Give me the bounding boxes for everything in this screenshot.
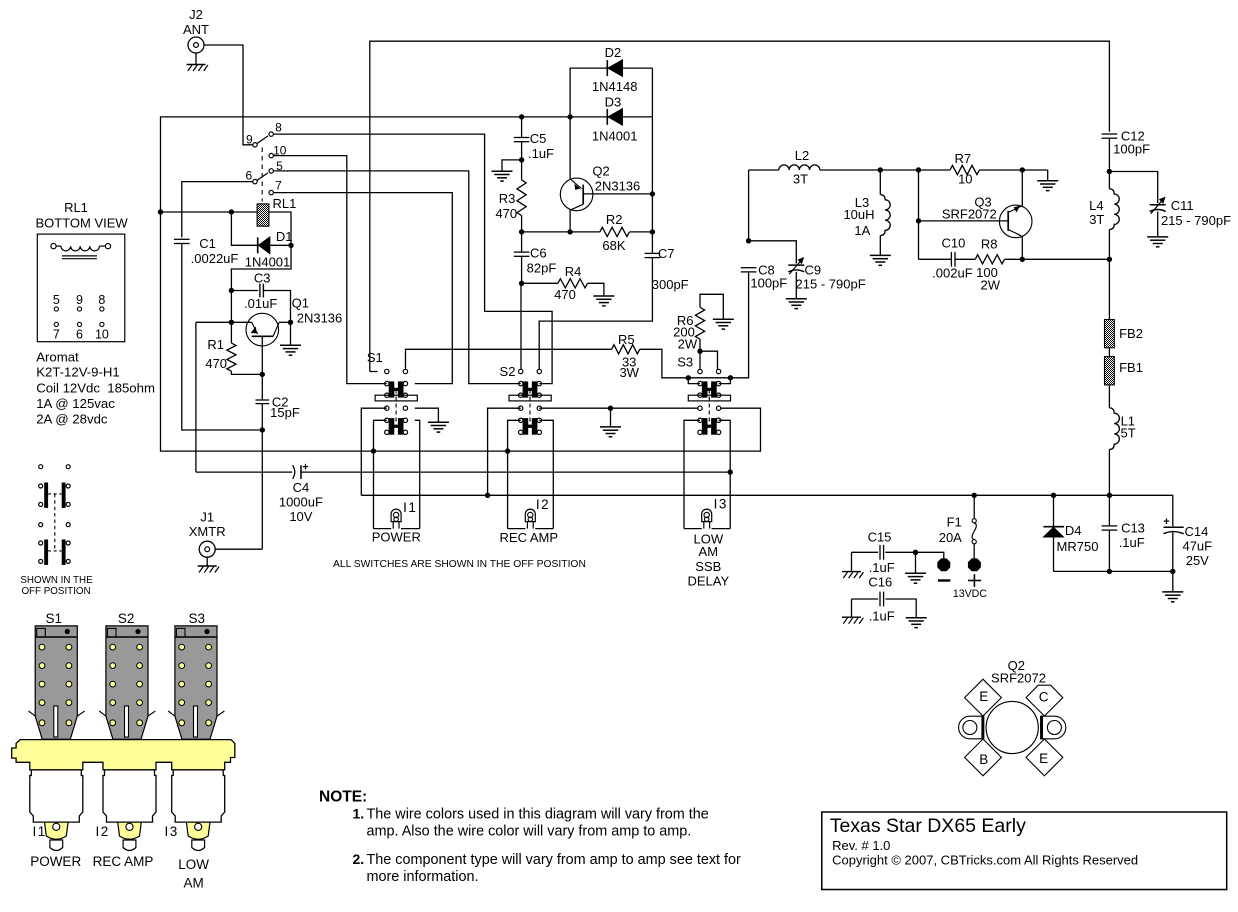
svg-text:25V: 25V: [1186, 553, 1209, 568]
connector J1 XMTR: [199, 541, 215, 557]
svg-text:amp. Also the wire color will: amp. Also the wire color will vary from …: [367, 824, 692, 840]
diode D1 1N4001: [231, 212, 257, 245]
resistor R8 100 2W: [955, 258, 975, 260]
inductor L4 3T: [1108, 172, 1110, 189]
svg-text:R3: R3: [499, 191, 516, 206]
capacitor C4 1000uF 10V (electrolytic): [196, 471, 292, 473]
ground at C5/R3 node: [502, 160, 522, 171]
svg-text:3W: 3W: [619, 365, 639, 380]
svg-text:13VDC: 13VDC: [953, 588, 987, 600]
node Q3 bus: [916, 167, 921, 172]
switch S3 (schematic): [698, 369, 702, 373]
connector J2 ANT: [188, 37, 204, 53]
svg-text:RL1: RL1: [64, 200, 88, 215]
svg-text:D4: D4: [1065, 523, 1082, 538]
resistor R6 200 2W: [700, 294, 723, 319]
capacitor C15 .1uF: [885, 551, 915, 553]
svg-text:.0022uF: .0022uF: [191, 251, 239, 266]
svg-text:5: 5: [53, 293, 60, 307]
relay RL1 bottom view box: [37, 234, 125, 342]
transistor Q2 2N3136: [569, 117, 571, 179]
svg-text:10V: 10V: [289, 509, 312, 524]
svg-text:R1: R1: [207, 337, 224, 352]
svg-text:Rev. # 1.0: Rev. # 1.0: [832, 838, 890, 853]
lead B bottom-left: [965, 739, 1002, 776]
svg-text:S1: S1: [367, 350, 383, 365]
fuse F1 20A: [972, 493, 977, 498]
wire S1 E-right (lamp I1 box right): [415, 420, 420, 528]
svg-text:POWER: POWER: [30, 854, 81, 869]
svg-text:I3: I3: [164, 824, 178, 839]
svg-text:C3: C3: [254, 270, 271, 285]
diode D3 1N4001: [522, 116, 608, 118]
svg-text:C4: C4: [293, 480, 310, 495]
node on left bus at coil line: [158, 209, 163, 214]
wire S1 B-left to pin 10: [273, 156, 386, 384]
svg-text:2W: 2W: [981, 278, 1001, 293]
capacitor C8 100pF: [746, 238, 751, 243]
svg-text:20A: 20A: [939, 530, 962, 545]
ground at J2 (chassis): [195, 53, 197, 64]
svg-text:R4: R4: [565, 264, 582, 279]
inductor L1 5T: [1108, 385, 1110, 408]
wire Q1 base to C4: [195, 322, 197, 472]
svg-text:9: 9: [246, 132, 253, 146]
svg-text:.1uF: .1uF: [869, 608, 895, 623]
svg-text:7: 7: [275, 179, 282, 193]
relay RL1 contact pins 8 9 10 5 6 7: [253, 143, 257, 147]
svg-text:C7: C7: [658, 246, 675, 261]
node C5 on top line: [519, 114, 524, 119]
inductor L2 3T: [748, 170, 750, 241]
svg-text:C11: C11: [1171, 198, 1194, 213]
chassis ground at C16 left: [851, 599, 853, 617]
svg-text:REC AMP: REC AMP: [93, 854, 154, 869]
wire S1 B-right to pin 7: [273, 193, 452, 384]
mounting frame (yellow bar): [12, 740, 235, 770]
wire J2 to relay pin 9: [204, 45, 253, 145]
svg-text:1.: 1.: [353, 805, 365, 821]
svg-text:.01uF: .01uF: [244, 296, 277, 311]
svg-text:R7: R7: [954, 151, 971, 166]
svg-text:L4: L4: [1089, 198, 1103, 213]
svg-text:S2: S2: [500, 364, 516, 379]
relay coil symbol in bottom view: [51, 244, 56, 249]
capacitor C1 .0022uF: [182, 182, 253, 238]
svg-text:SRF2072: SRF2072: [991, 671, 1046, 686]
ground at C9: [786, 298, 807, 300]
svg-text:S1: S1: [46, 611, 63, 626]
svg-text:Copyright © 2007, CBTricks.com: Copyright © 2007, CBTricks.com All Right…: [832, 852, 1138, 867]
svg-text:Q2: Q2: [592, 164, 609, 179]
svg-text:Aromat: Aromat: [36, 349, 79, 364]
svg-text:more information.: more information.: [367, 869, 479, 885]
svg-text:470: 470: [205, 356, 227, 371]
svg-text:+: +: [302, 461, 308, 473]
wire D1 return loop: [231, 245, 291, 290]
svg-text:2W: 2W: [678, 336, 698, 351]
wire S2 D-right to S3 D-left with ground: [539, 407, 700, 409]
svg-text:1A @ 125vac: 1A @ 125vac: [36, 396, 115, 411]
lamp holder I3: [172, 770, 225, 822]
svg-text:.002uF: .002uF: [932, 266, 973, 281]
ground at R7: [1047, 170, 1049, 181]
wire S1 A-right to R5 line: [406, 349, 612, 369]
svg-text:.1uF: .1uF: [1119, 535, 1145, 550]
svg-text:B: B: [979, 752, 988, 767]
svg-text:100pF: 100pF: [1113, 141, 1150, 156]
svg-text:I2: I2: [536, 497, 550, 512]
ground at Q1 collector: [290, 322, 292, 345]
svg-text:8: 8: [275, 121, 282, 135]
svg-text:D3: D3: [605, 95, 622, 110]
svg-text:300pF: 300pF: [652, 277, 689, 292]
svg-text:C5: C5: [530, 131, 547, 146]
wire S3 E-right (lamp I3 box right): [719, 420, 731, 528]
ferrite bead FB1: [1108, 348, 1110, 357]
svg-text:215 - 790pF: 215 - 790pF: [796, 277, 866, 292]
svg-text:215 - 790pF: 215 - 790pF: [1161, 213, 1231, 228]
svg-text:SHOWN IN THE: SHOWN IN THE: [20, 575, 93, 586]
svg-text:82pF: 82pF: [527, 261, 557, 276]
svg-text:C9: C9: [804, 263, 821, 278]
relay RL1 coil: [257, 204, 269, 226]
wire S1 D-left down to supply rail wire: [361, 408, 387, 495]
svg-text:Q1: Q1: [292, 296, 309, 311]
svg-text:8: 8: [98, 293, 105, 307]
title box: [822, 812, 1227, 890]
svg-text:R5: R5: [618, 332, 635, 347]
capacitor C6 82pF: [521, 232, 523, 252]
lamp holder I1: [30, 770, 83, 822]
svg-text:F1: F1: [947, 514, 962, 529]
svg-text:15pF: 15pF: [270, 405, 300, 420]
svg-text:ANT: ANT: [183, 22, 209, 37]
svg-text:3T: 3T: [1089, 212, 1104, 227]
wire S2 B-right to pin 8: [273, 134, 552, 384]
svg-text:6: 6: [245, 169, 252, 183]
mounting tab left: [959, 716, 984, 739]
svg-text:47uF: 47uF: [1182, 538, 1212, 553]
wire S2 E-right (lamp I2 box right): [539, 420, 553, 528]
svg-text:.1uF: .1uF: [869, 560, 895, 575]
svg-text:2N3136: 2N3136: [297, 311, 343, 326]
terminal -: [938, 559, 950, 571]
switch S1 (schematic): [385, 369, 389, 373]
svg-text:E: E: [1039, 751, 1048, 766]
svg-text:J2: J2: [189, 7, 203, 22]
wire top bus with right rail: [370, 41, 1110, 371]
ground at C15 node: [915, 552, 917, 573]
resistor R7 10: [950, 165, 979, 174]
svg-text:I1: I1: [32, 824, 46, 839]
switch S2 (schematic): [519, 369, 523, 373]
capacitor C12 100pF: [1102, 133, 1118, 135]
switch S1 body: [35, 626, 77, 739]
relay contacts shown off position diagram: [39, 465, 43, 469]
svg-text:C1: C1: [199, 236, 216, 251]
svg-text:C10: C10: [941, 235, 965, 250]
lamp I3 LOW AM SSB DELAY: [684, 528, 702, 530]
capacitor C7 300pF: [645, 252, 661, 254]
svg-text:.1uF: .1uF: [528, 146, 554, 161]
svg-text:R2: R2: [606, 212, 623, 227]
mounting tab right: [1041, 716, 1066, 739]
svg-text:I3: I3: [714, 496, 728, 511]
svg-text:K2T-12V-9-H1: K2T-12V-9-H1: [36, 364, 120, 379]
svg-text:68K: 68K: [602, 238, 625, 253]
wire S3 E-left (lamp I3 box left): [684, 420, 700, 528]
wire S1 D-right to ground: [415, 408, 439, 422]
lamp holder I2: [103, 770, 156, 822]
svg-text:C16: C16: [868, 575, 892, 590]
wire S2 B-left to pin 5: [273, 171, 520, 384]
capacitor C2 15pF: [261, 374, 263, 400]
terminal + 13VDC: [969, 559, 981, 571]
svg-text:OFF POSITION: OFF POSITION: [21, 586, 90, 597]
svg-text:470: 470: [495, 206, 517, 221]
transistor Q1 2N3136: [196, 321, 252, 323]
svg-text:R8: R8: [981, 236, 998, 251]
capacitor C5 .1uF: [521, 117, 523, 137]
svg-text:POWER: POWER: [372, 530, 421, 545]
svg-text:6: 6: [76, 328, 83, 342]
ground at J1 (chassis): [206, 557, 208, 565]
lead E bottom-right: [1026, 739, 1063, 776]
capacitor C13 .1uF: [1108, 495, 1110, 526]
capacitor C14 47uF 25V (electrolytic): [1164, 526, 1184, 528]
variable capacitor C9 215-790pF: [749, 241, 797, 264]
svg-text:FB1: FB1: [1119, 360, 1143, 375]
capacitor C16 .1uF: [852, 598, 879, 600]
svg-text:Coil 12Vdc 185ohm: Coil 12Vdc 185ohm: [36, 380, 155, 395]
chassis ground at C15 left: [851, 552, 853, 571]
svg-text:10uH: 10uH: [843, 207, 874, 222]
wire S2 E-left (lamp I2 box left): [508, 420, 521, 528]
wire C2 node to J1: [261, 430, 263, 549]
ground at C16 right: [906, 617, 927, 619]
ground at S1 D-right: [428, 421, 449, 423]
svg-text:J1: J1: [200, 510, 214, 525]
lead E top-left: [965, 679, 1002, 716]
svg-text:2A @ 28vdc: 2A @ 28vdc: [36, 411, 108, 426]
wire left bus / top line / bottom long wire: [161, 117, 761, 451]
switch S3 body: [175, 626, 217, 739]
svg-text:SRF2072: SRF2072: [942, 207, 997, 222]
resistor R5 33 3W: [612, 345, 640, 354]
svg-text:REC AMP: REC AMP: [500, 530, 559, 545]
wire S1 E-left (lamp I1 box left): [374, 420, 387, 528]
svg-text:MR750: MR750: [1057, 539, 1099, 554]
svg-text:XMTR: XMTR: [189, 524, 226, 539]
ground at C14: [1172, 571, 1174, 592]
inductor L3 10uH 1A: [878, 167, 883, 172]
resistor R4 470: [522, 282, 558, 284]
ground at L3: [870, 254, 891, 256]
wire C7 to S2 pole: [539, 258, 652, 370]
svg-text:1N4001: 1N4001: [245, 254, 291, 269]
svg-text:The component type will vary f: The component type will vary from amp to…: [367, 852, 742, 868]
package body circle: [986, 701, 1038, 753]
svg-text:I1: I1: [403, 500, 417, 515]
svg-text:I2: I2: [95, 824, 109, 839]
svg-text:1N4001: 1N4001: [592, 128, 638, 143]
svg-text:E: E: [979, 689, 988, 704]
wire S2 D-left to supply rail: [488, 408, 521, 495]
resistor R2 68K: [522, 231, 600, 233]
switch S2 body: [106, 626, 148, 739]
svg-text:S3: S3: [189, 611, 206, 626]
resistor R1 470: [227, 343, 236, 371]
svg-text:SSB: SSB: [695, 559, 721, 574]
svg-text:3T: 3T: [793, 172, 808, 187]
svg-text:10: 10: [958, 172, 972, 187]
svg-text:AM: AM: [183, 876, 203, 891]
variable capacitor C11 215-790pF: [1109, 172, 1157, 204]
diode D2 1N4148: [567, 114, 572, 119]
ground at R6: [713, 318, 734, 320]
svg-text:100pF: 100pF: [750, 276, 787, 291]
svg-text:D1: D1: [276, 229, 293, 244]
lead C top-right (beveled): [1026, 685, 1063, 716]
capacitor C3 .01uF: [229, 288, 234, 293]
svg-text:C14: C14: [1184, 524, 1208, 539]
svg-text:C6: C6: [530, 246, 547, 261]
svg-text:AM: AM: [699, 544, 719, 559]
wire lamp supply rail y=495: [361, 495, 1173, 526]
svg-text:ALL SWITCHES ARE SHOWN IN THE: ALL SWITCHES ARE SHOWN IN THE OFF POSITI…: [333, 559, 586, 570]
svg-text:2N3136: 2N3136: [595, 179, 641, 194]
wire S3 B-left: [688, 378, 700, 384]
wire S1 A-left to bus: [370, 371, 378, 373]
wire coil row y=212: [161, 211, 258, 213]
ground at C11: [1147, 236, 1168, 238]
svg-text:The wire colors used in this d: The wire colors used in this diagram wil…: [367, 807, 709, 823]
svg-text:S3: S3: [677, 355, 693, 370]
ground at R4: [593, 295, 614, 297]
ferrite bead FB2: [1108, 259, 1110, 319]
svg-text:+: +: [1163, 516, 1169, 528]
transistor Q3 SRF2072: [919, 220, 1009, 222]
wire bottom return: [1054, 570, 1173, 572]
svg-text:1000uF: 1000uF: [279, 495, 323, 510]
svg-text:C15: C15: [868, 529, 892, 544]
svg-text:Texas Star DX65 Early: Texas Star DX65 Early: [830, 815, 1026, 837]
svg-text:C: C: [1039, 690, 1049, 705]
svg-text:D2: D2: [605, 45, 622, 60]
svg-text:NOTE:: NOTE:: [319, 789, 367, 806]
lamp I1 POWER: [374, 528, 392, 530]
wire S3 B-right: [719, 378, 731, 384]
wire R6 to S3 poles: [699, 351, 701, 369]
svg-text:1A: 1A: [854, 223, 870, 238]
ground at S2/S3 D wire: [610, 408, 612, 427]
diode D4 MR750: [1051, 493, 1056, 498]
svg-text:DELAY: DELAY: [687, 573, 729, 588]
svg-text:1N4148: 1N4148: [592, 79, 638, 94]
svg-text:7: 7: [53, 328, 60, 342]
wire minus terminal to C15 node: [916, 552, 944, 558]
svg-text:L2: L2: [795, 148, 809, 163]
svg-text:9: 9: [76, 293, 83, 307]
svg-text:BOTTOM VIEW: BOTTOM VIEW: [35, 215, 128, 230]
resistor R3 470: [521, 160, 523, 180]
svg-text:2.: 2.: [353, 851, 365, 867]
svg-text:470: 470: [554, 287, 576, 302]
svg-text:FB2: FB2: [1119, 326, 1143, 341]
svg-text:RL1: RL1: [272, 196, 296, 211]
wire C6 node down to S2 pole: [520, 283, 522, 369]
wire R5 to S3 poles / C8: [640, 272, 749, 378]
svg-text:S2: S2: [118, 611, 135, 626]
lamp I2 REC AMP: [508, 528, 526, 530]
svg-text:10: 10: [95, 328, 109, 342]
svg-text:LOW: LOW: [178, 857, 209, 872]
capacitor C10 .002uF: [919, 258, 952, 260]
wire D2/D3 right rail: [651, 68, 653, 253]
svg-text:5T: 5T: [1121, 426, 1136, 441]
svg-text:C13: C13: [1121, 521, 1145, 536]
